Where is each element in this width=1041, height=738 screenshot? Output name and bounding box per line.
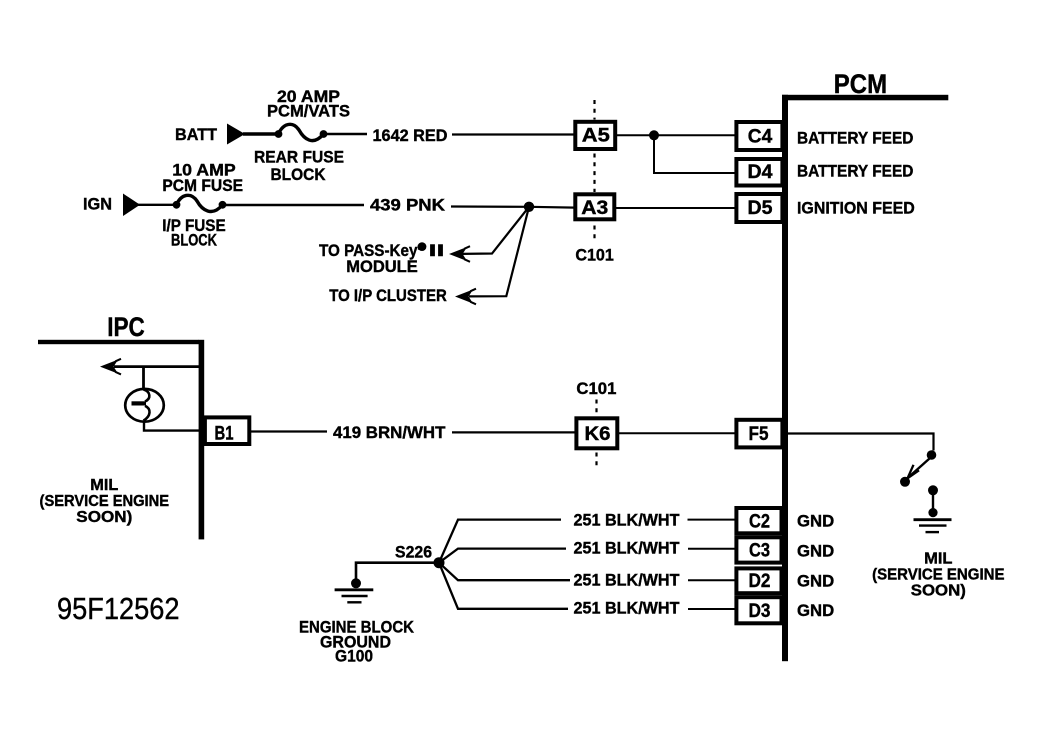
wire K6 to PCM pin F5 (618, 432, 737, 434)
MIL switch fixed contact (928, 485, 938, 495)
svg-text:251 BLK/WHT: 251 BLK/WHT (574, 539, 681, 558)
wire S226 to ground G100 (356, 563, 439, 579)
svg-text:1642 RED: 1642 RED (373, 126, 448, 145)
PCM pin C2 (736, 508, 781, 533)
svg-text:439 PNK: 439 PNK (370, 196, 446, 215)
PCM pin D3 (736, 597, 781, 623)
svg-text:MIL: MIL (924, 551, 952, 568)
wire 419 to connector K6 (452, 431, 576, 433)
ground symbol MIL (914, 520, 952, 532)
wire row 2 to pin C3 (688, 548, 737, 550)
label MIL of IPC (40, 477, 170, 526)
arrowhead to PASS-Key II module (449, 246, 470, 262)
svg-text:(SERVICE ENGINE: (SERVICE ENGINE (872, 567, 1004, 584)
PCM pin F5 (736, 420, 782, 448)
svg-text:SOON): SOON) (911, 583, 966, 600)
MIL switch blade arrowhead (908, 465, 920, 479)
connector A5 of C101 (575, 122, 615, 149)
BATT input arrow terminal (227, 124, 245, 145)
splice S226 (434, 557, 445, 568)
svg-text:PCM/VATS: PCM/VATS (267, 102, 350, 121)
svg-text:(SERVICE ENGINE: (SERVICE ENGINE (40, 493, 170, 510)
svg-text:BLOCK: BLOCK (271, 165, 327, 184)
wire S226 branch 3 (439, 563, 570, 581)
MIL indicator lamp (125, 389, 164, 422)
connector C101 dashed line lower (595, 400, 597, 469)
svg-text:PCM: PCM (834, 69, 887, 99)
ground terminal dot G100 (351, 578, 361, 588)
wire BATT arrow to fuse (243, 132, 279, 135)
IGN input arrow terminal (123, 194, 140, 217)
wire fuse to 1642 RED label (324, 133, 368, 135)
PCM pin C4 (736, 122, 782, 150)
svg-text:251 BLK/WHT: 251 BLK/WHT (574, 571, 681, 590)
branch wire to PASS-Key II module (462, 207, 529, 254)
svg-text:GND: GND (797, 511, 834, 530)
svg-text:C2: C2 (749, 511, 770, 532)
svg-text:C101: C101 (575, 245, 614, 264)
IPC internal feed arrow (100, 359, 199, 375)
wire A3 to PCM pin D5 (615, 207, 738, 209)
wire junction to connector A3 (529, 206, 575, 209)
wire fuse to 439 PNK label (223, 204, 365, 206)
connector A3 of C101 (575, 194, 614, 219)
wire 1642 RED to connector A5 (452, 133, 575, 135)
svg-text:BLOCK: BLOCK (171, 231, 218, 250)
svg-text:A3: A3 (581, 198, 608, 219)
label TO PASS-Key II (319, 241, 445, 260)
svg-text:BATTERY FEED: BATTERY FEED (797, 161, 913, 180)
wire S226 branch 4 (439, 563, 568, 609)
svg-text:F5: F5 (749, 424, 769, 445)
svg-text:D5: D5 (748, 198, 773, 219)
MIL switch top contact (927, 450, 937, 460)
PCM module outline (782, 95, 948, 661)
svg-text:251 BLK/WHT: 251 BLK/WHT (574, 599, 681, 618)
svg-text:MIL: MIL (90, 477, 118, 494)
wire lamp to connector B1 (144, 422, 200, 431)
svg-text:C101: C101 (576, 379, 616, 398)
wire S226 branch 2 (439, 549, 566, 563)
wire 439 PNK to junction (451, 205, 529, 208)
svg-text:IGNITION FEED: IGNITION FEED (797, 198, 915, 217)
connector C101 dashed line upper (593, 100, 595, 242)
svg-text:BATTERY FEED: BATTERY FEED (797, 128, 913, 147)
svg-text:TO I/P CLUSTER: TO I/P CLUSTER (329, 286, 447, 305)
wire F5 to MIL switch (782, 434, 934, 451)
wire arrow line to MIL lamp (142, 367, 145, 390)
svg-text:S226: S226 (395, 543, 432, 562)
svg-text:D2: D2 (749, 571, 771, 592)
svg-text:GND: GND (797, 601, 834, 620)
svg-text:PCM FUSE: PCM FUSE (162, 176, 243, 195)
wire S226 branch 1 (439, 520, 561, 563)
svg-text:IGN: IGN (83, 195, 112, 214)
PCM pin D2 (736, 568, 781, 593)
ground symbol G100 (335, 590, 374, 603)
svg-text:C4: C4 (748, 126, 773, 147)
wire B1 to 419 label (251, 430, 327, 432)
branch wire to I/P cluster (469, 207, 529, 297)
svg-text:95F12562: 95F12562 (57, 591, 180, 626)
svg-text:251 BLK/WHT: 251 BLK/WHT (574, 510, 681, 529)
MIL switch blade (907, 459, 930, 480)
svg-text:MODULE: MODULE (346, 257, 418, 276)
svg-text:II: II (429, 241, 445, 260)
svg-text:IPC: IPC (107, 312, 145, 342)
wire row 1 to pin C2 (688, 519, 738, 521)
svg-text:C3: C3 (749, 541, 770, 562)
svg-text:B1: B1 (215, 424, 234, 445)
wire row 3 to pin D2 (688, 579, 737, 581)
ground terminal dot MIL (928, 508, 937, 517)
svg-text:SOON): SOON) (76, 509, 132, 526)
svg-text:REAR FUSE: REAR FUSE (254, 148, 344, 167)
svg-text:D3: D3 (749, 601, 771, 622)
PCM pin D4 (736, 159, 782, 186)
svg-text:419 BRN/WHT: 419 BRN/WHT (333, 423, 446, 442)
MIL switch lower left contact (900, 477, 910, 487)
PCM pin D5 (736, 194, 782, 222)
wire branch junction to pin D4 (654, 135, 737, 173)
wire A5 to junction and pin C4 (616, 134, 738, 136)
wire IGN arrow to fuse (138, 204, 177, 206)
svg-text:R: R (418, 244, 423, 251)
fuse 10 AMP PCM FUSE in I/P fuse block (173, 195, 227, 211)
svg-text:K6: K6 (585, 424, 611, 445)
svg-text:BATT: BATT (175, 125, 218, 144)
junction node 439 PNK splice (524, 202, 534, 212)
IPC module outline (38, 340, 204, 540)
wire switch fixed contact to ground (932, 494, 934, 509)
svg-text:GND: GND (797, 572, 834, 591)
svg-text:GND: GND (797, 542, 834, 561)
junction node battery feed split (649, 130, 659, 140)
connector K6 of C101 (576, 418, 617, 448)
svg-text:A5: A5 (582, 126, 610, 147)
wire row 4 to pin D3 (688, 608, 737, 610)
arrowhead to I/P cluster (455, 289, 476, 305)
fuse 20 AMP PCM/VATS in rear fuse block (275, 124, 328, 140)
PCM pin C3 (736, 537, 781, 562)
svg-text:G100: G100 (335, 647, 373, 666)
connector B1 (205, 417, 249, 444)
label MIL of switch (872, 551, 1004, 600)
svg-text:D4: D4 (748, 162, 773, 183)
